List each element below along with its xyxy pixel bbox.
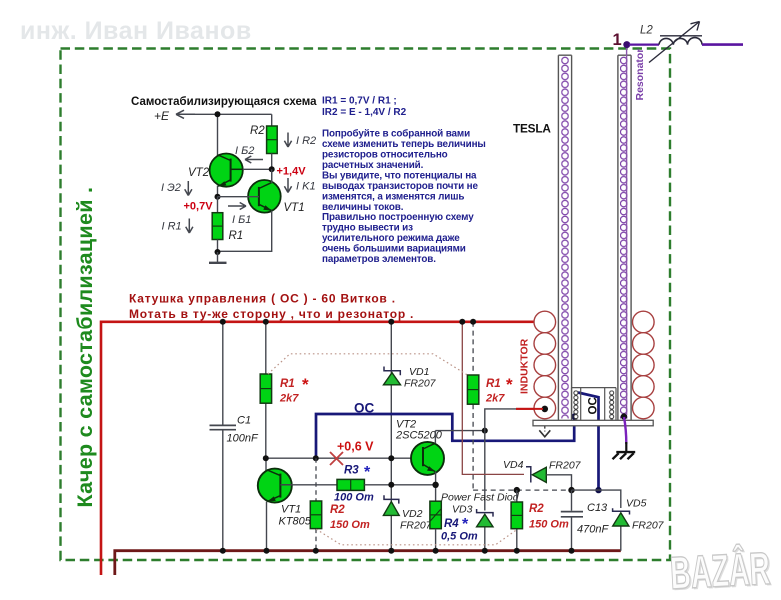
svg-text:TESLA: TESLA bbox=[513, 122, 551, 136]
node dot VD3 bottom bbox=[482, 548, 488, 554]
node dot +0.7V bbox=[215, 194, 221, 200]
wire collector to tap riser bbox=[435, 430, 484, 432]
wire VT2 collector riser bbox=[217, 114, 219, 156]
L2 core line bbox=[660, 35, 702, 37]
resistor R3 (horizontal 100 Om) bbox=[337, 479, 364, 490]
wire riser to inductor tap bbox=[485, 409, 516, 431]
wire VT2 collector up bbox=[434, 431, 436, 444]
svg-text:100nF: 100nF bbox=[227, 433, 259, 445]
resistor R1 (left 2k7) bbox=[260, 374, 271, 403]
svg-text:I K1: I K1 bbox=[296, 181, 316, 193]
svg-text:FR207: FR207 bbox=[404, 378, 437, 390]
wire VD4 anode to node bbox=[546, 475, 571, 490]
svg-text:величины токов.: величины токов. bbox=[322, 202, 404, 213]
transistor VT1 KT805 bbox=[258, 469, 292, 503]
base bus wire bbox=[266, 457, 423, 459]
navy node dot on bottom wire bbox=[595, 487, 601, 493]
svg-text:Попробуйте в собранной вами: Попробуйте в собранной вами bbox=[322, 129, 470, 140]
wire VT1 emitter down and left bbox=[218, 211, 272, 252]
base wire VT1 bbox=[218, 196, 259, 198]
diode VD3 bbox=[477, 509, 493, 527]
svg-text:*: * bbox=[506, 375, 513, 394]
node dot resonator right bottom bbox=[621, 413, 627, 419]
purple riser node1 to coil bbox=[626, 46, 628, 415]
wire +0.7V node down to R1 bbox=[217, 197, 219, 213]
resonator left rail lines bbox=[558, 55, 571, 420]
svg-text:I R2: I R2 bbox=[296, 135, 316, 147]
node dot VD1 top bbox=[388, 319, 394, 325]
svg-text:расчетных значений.: расчетных значений. bbox=[322, 160, 424, 171]
inductor primary right column bbox=[633, 311, 655, 419]
svg-text:FR207: FR207 bbox=[400, 520, 433, 532]
node dot VT1 emitter rail bbox=[264, 548, 270, 554]
capacitor C1 branch wire bbox=[222, 322, 224, 551]
wire VT2 emitter down bbox=[435, 472, 437, 502]
resonator right winding bbox=[620, 57, 627, 419]
node dot inductor tap bbox=[542, 406, 549, 413]
svg-text:инж. Иван Иванов: инж. Иван Иванов bbox=[20, 17, 252, 45]
node dot top rail bbox=[215, 111, 221, 117]
node dot VD4 rail bbox=[459, 319, 465, 325]
resonator left winding bbox=[561, 57, 568, 419]
node dot bus-R1L bbox=[263, 455, 269, 461]
svg-text:усилительного режима даже: усилительного режима даже bbox=[322, 233, 460, 244]
base platform bbox=[533, 420, 653, 426]
resistor R1 (right 2k7) bbox=[467, 375, 478, 404]
svg-text:FR207: FR207 bbox=[632, 520, 665, 532]
node dot R2R bottom bbox=[514, 548, 520, 554]
svg-text:очень большими вариациями: очень большими вариациями bbox=[322, 244, 466, 255]
svg-text:+0,7V: +0,7V bbox=[184, 201, 214, 213]
OC coil left winding bbox=[573, 391, 580, 420]
svg-text:Правильно построенную схему: Правильно построенную схему bbox=[322, 212, 474, 223]
capacitor C13 branch wire bbox=[571, 490, 573, 551]
svg-text:Катушка управления ( ОС ) - 60: Катушка управления ( ОС ) - 60 Витков . bbox=[129, 292, 396, 306]
down arrow under inductor bbox=[539, 426, 550, 437]
L2 variable arrow bbox=[649, 22, 700, 63]
navy feedback wire bbox=[316, 414, 574, 458]
node dot R4 bottom bbox=[433, 548, 439, 554]
svg-text:IR1 = 0,7V / R1 ;: IR1 = 0,7V / R1 ; bbox=[322, 96, 397, 107]
node dot R1R rail bbox=[470, 319, 476, 325]
red tap wire overlay bbox=[516, 408, 543, 410]
purple wire node1 to L2 bbox=[629, 43, 659, 45]
svg-text:C1: C1 bbox=[237, 415, 251, 427]
svg-text:470nF: 470nF bbox=[577, 524, 609, 536]
node dot VD2 bottom bbox=[388, 548, 394, 554]
node dot R2L bottom bbox=[313, 548, 319, 554]
solid wire node to VD5 bbox=[572, 490, 621, 551]
diode VD5 bbox=[613, 508, 630, 526]
svg-text:+1,4V: +1,4V bbox=[277, 166, 307, 178]
node dot C1 bottom bbox=[220, 548, 226, 554]
svg-text:VD2: VD2 bbox=[402, 508, 423, 520]
svg-text:R3: R3 bbox=[344, 465, 359, 477]
wire R2 to +1.4V node bbox=[271, 154, 273, 186]
svg-text:I Б1: I Б1 bbox=[232, 214, 251, 226]
svg-text:INDUKTOR: INDUKTOR bbox=[519, 338, 531, 394]
node dot C1 top bbox=[220, 319, 226, 325]
purple wire to ground bbox=[624, 417, 626, 444]
current arrow I B1 bbox=[228, 203, 246, 210]
node dot inductor tap (redraw above circle) bbox=[542, 406, 549, 413]
ground fork bbox=[613, 442, 636, 459]
svg-text:R2: R2 bbox=[529, 503, 544, 515]
node dot VD4 bottom bbox=[568, 487, 574, 493]
svg-text:Самостабилизирующаяся схема: Самостабилизирующаяся схема bbox=[131, 96, 317, 108]
svg-text:*: * bbox=[364, 464, 371, 481]
wire VT2 emitter to +0.7V node bbox=[217, 186, 219, 197]
wire VT1 emitter to rail bbox=[266, 502, 268, 551]
node dot ground bbox=[215, 249, 221, 255]
base wire VT2 to node bbox=[243, 168, 272, 170]
dashed wire R1 right bbox=[473, 322, 571, 490]
brown wire from +V rail bbox=[462, 322, 524, 475]
wire R2 branch upper bbox=[271, 114, 273, 126]
node dot bus-VD1 bbox=[388, 455, 394, 461]
inductor primary left column bbox=[534, 311, 556, 419]
diode VD1 branch wire bbox=[390, 322, 392, 551]
navy wire OC coil right to node bbox=[578, 393, 599, 491]
node dot VT2 emitter bbox=[432, 482, 438, 488]
svg-text:VT1: VT1 bbox=[284, 202, 305, 214]
svg-text:100 Om: 100 Om bbox=[334, 492, 374, 504]
wire collector node down to VD3 bbox=[484, 431, 486, 551]
svg-text:C13: C13 bbox=[587, 502, 608, 514]
resistor R2 (left 150 Om) bbox=[310, 501, 321, 529]
svg-text:2k7: 2k7 bbox=[279, 393, 299, 405]
red tap wire to inductor bbox=[516, 408, 545, 410]
resistor R1 bbox=[212, 213, 223, 240]
svg-text:I R1: I R1 bbox=[162, 221, 182, 233]
resistor R2 right branch wire bbox=[516, 490, 518, 551]
svg-text:VD3: VD3 bbox=[452, 504, 473, 516]
current arrow I K1 bbox=[284, 178, 291, 193]
svg-text:R2: R2 bbox=[330, 504, 345, 516]
svg-text:KT805: KT805 bbox=[279, 516, 312, 528]
green dashed frame bbox=[61, 49, 671, 561]
svg-text:150 Om: 150 Om bbox=[529, 519, 569, 531]
svg-text:L2: L2 bbox=[640, 25, 653, 37]
node dot R1L top bbox=[263, 319, 269, 325]
transistor VT2 2SC5200 bbox=[411, 442, 444, 475]
diode VD4 bbox=[526, 467, 546, 483]
svg-text:R4: R4 bbox=[444, 518, 459, 530]
current arrow I E2 bbox=[185, 181, 192, 196]
svg-text:VT1: VT1 bbox=[281, 504, 301, 516]
ground (top schematic) bbox=[209, 252, 227, 263]
blue paragraph bbox=[322, 129, 486, 266]
transistor VT1 (top schematic) bbox=[248, 180, 281, 213]
node dot R2R top bbox=[514, 487, 520, 493]
+E arrow bbox=[176, 110, 195, 118]
resistor R2 (right 150 Om) bbox=[511, 502, 522, 529]
node dot VD2 top wire bbox=[388, 482, 394, 488]
svg-text:изменятся, а изменятся лишь: изменятся, а изменятся лишь bbox=[322, 191, 464, 202]
inductor L2 humps bbox=[659, 38, 702, 45]
svg-text:+E: +E bbox=[154, 109, 170, 123]
svg-text:I Э2: I Э2 bbox=[161, 182, 181, 194]
svg-text:Вы увидите, что потенциалы на: Вы увидите, что потенциалы на bbox=[322, 170, 477, 181]
OC coil right winding bbox=[608, 391, 615, 420]
svg-text:0,5 Om: 0,5 Om bbox=[441, 531, 478, 543]
diode VD1 bbox=[384, 367, 401, 385]
dashed wire R2 left bbox=[315, 458, 317, 551]
capacitor C13 bbox=[561, 512, 583, 517]
svg-text:R1: R1 bbox=[486, 378, 501, 390]
transistor VT2 (top schematic) bbox=[210, 154, 243, 187]
svg-text:R1: R1 bbox=[229, 230, 244, 242]
current arrow I R2 bbox=[284, 133, 291, 148]
svg-text:*: * bbox=[302, 375, 309, 394]
node dot collector corner bbox=[482, 428, 488, 434]
wire R3 to VT2 emitter bbox=[364, 484, 435, 486]
current arrow I B2 bbox=[245, 156, 263, 163]
svg-text:схеме изменить теперь величины: схеме изменить теперь величины bbox=[322, 139, 486, 150]
svg-text:параметров элементов.: параметров элементов. bbox=[322, 254, 436, 265]
svg-text:BAZÂR: BAZÂR bbox=[669, 542, 772, 599]
node dot +1.4V bbox=[269, 166, 275, 172]
maroon ground rail bbox=[115, 551, 621, 575]
svg-text:FR207: FR207 bbox=[549, 460, 582, 472]
wire R4 to rail bbox=[435, 529, 437, 551]
red X measure mark bbox=[330, 452, 343, 465]
red +V rail bbox=[101, 322, 536, 575]
navy node dot OC coil left bbox=[571, 413, 577, 419]
node dot C13 bottom bbox=[569, 548, 575, 554]
svg-text:ОС: ОС bbox=[588, 397, 600, 414]
svg-text:2k7: 2k7 bbox=[485, 393, 505, 405]
node dot bus-OC bbox=[313, 455, 319, 461]
OC pickup coil box bbox=[572, 388, 617, 421]
dotted pair link top (R1L to R1R) bbox=[268, 354, 467, 375]
svg-text:VD5: VD5 bbox=[626, 498, 647, 510]
wire VT1 collector to +1.4V node bbox=[271, 169, 273, 183]
svg-text:резисторов относительно: резисторов относительно bbox=[322, 150, 448, 161]
node dot 1 bbox=[623, 41, 630, 48]
svg-text:Мотать в ту-же сторону , что и: Мотать в ту-же сторону , что и резонатор… bbox=[129, 307, 414, 321]
current arrow I R1 bbox=[186, 219, 193, 234]
svg-text:R1: R1 bbox=[280, 378, 295, 390]
diode VD2 bbox=[383, 495, 399, 515]
svg-text:Качер с самостабилизацией .: Качер с самостабилизацией . bbox=[73, 187, 97, 508]
svg-text:трудно вывести из: трудно вывести из bbox=[322, 223, 413, 234]
svg-text:Resonator: Resonator bbox=[634, 49, 646, 101]
svg-text:1: 1 bbox=[613, 31, 622, 49]
purple wire L2 to right bbox=[702, 43, 743, 46]
svg-text:IR2 = E - 1,4V / R2: IR2 = E - 1,4V / R2 bbox=[322, 107, 407, 118]
svg-text:R2: R2 bbox=[250, 125, 265, 137]
watermark bazar bbox=[669, 542, 773, 600]
resonator right rail lines bbox=[618, 55, 631, 420]
svg-text:Power Fast Diod: Power Fast Diod bbox=[441, 492, 520, 504]
svg-text:VD4: VD4 bbox=[503, 459, 524, 471]
wire R1 to ground node bbox=[217, 240, 219, 253]
dotted pair link bottom (R2L to R2R) bbox=[316, 529, 516, 545]
svg-text:150 Om: 150 Om bbox=[330, 519, 370, 531]
resistor R1 left branch wire bbox=[265, 322, 267, 471]
capacitor C1 bbox=[210, 425, 237, 429]
resistor R2 bbox=[267, 126, 278, 154]
svg-text:+0,6 V: +0,6 V bbox=[337, 440, 374, 454]
wire top rail of sub-schematic bbox=[195, 113, 272, 115]
wire VT1 base to R3 bbox=[280, 484, 337, 486]
svg-text:VT2: VT2 bbox=[188, 167, 210, 179]
svg-text:VD1: VD1 bbox=[409, 366, 429, 378]
svg-text:I Б2: I Б2 bbox=[235, 145, 254, 157]
resistor R4 0,5 Om bbox=[430, 501, 441, 529]
svg-text:выводах транзисторов почти не: выводах транзисторов почти не bbox=[322, 181, 478, 192]
